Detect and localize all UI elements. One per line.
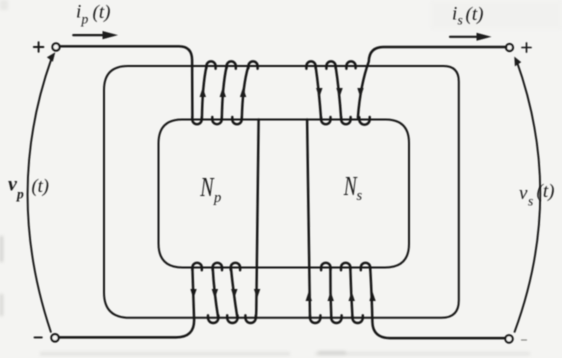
svg-text:N: N (199, 173, 214, 203)
arrow (up) on window wire of secondary (306, 292, 312, 302)
plus sign at primary + terminal (34, 42, 44, 52)
svg-text:(t): (t) (93, 2, 111, 23)
svg-text:p: p (81, 12, 89, 27)
current arrow i_s (450, 36, 477, 38)
secondary top coil: lower humps below core inner edge (321, 117, 370, 125)
svg-text:s: s (458, 13, 463, 28)
terminal -secondary (bottom right) (505, 335, 512, 342)
secondary bottom coil: current direction arrows (up) (328, 292, 376, 302)
voltage arc v_s with arrow toward + terminal (515, 60, 541, 332)
svg-text:p: p (213, 190, 221, 206)
svg-text:s: s (528, 194, 533, 209)
primary top coil: front wire strokes (202, 66, 249, 119)
terminal +secondary (top right) (506, 44, 513, 51)
primary bottom coil: upper humps above core inner bottom edge (192, 263, 240, 271)
svg-text:v: v (519, 183, 528, 204)
primary bottom coil: lower humps below core bottom edge (208, 315, 256, 323)
current arrow i_p (73, 34, 103, 36)
transformer core: outer outline (104, 66, 459, 318)
primary top coil: lower humps below core inner edge (192, 117, 241, 124)
wire: secondary bottom lead from coil to - terminal (370, 268, 505, 339)
voltage arc v_p with arrow toward + terminal (28, 59, 52, 332)
wire: primary bottom lead from coil to - terminal (59, 268, 195, 338)
minus sign at secondary - terminal (522, 339, 527, 341)
secondary bottom coil: upper humps above core inner bottom edge (321, 263, 370, 271)
svg-text:s: s (357, 188, 363, 204)
primary top coil: upper humps over core top edge (206, 61, 257, 68)
wire: primary winding pass through window (left vertical) (256, 120, 259, 318)
transformer core: inner window outline (159, 120, 410, 268)
plus sign at secondary + terminal (522, 43, 531, 52)
secondary top coil: current direction arrows (down) (316, 88, 364, 98)
svg-text:(t): (t) (466, 4, 484, 25)
secondary bottom coil: lower humps below core bottom edge (310, 315, 363, 323)
minus sign at primary - terminal (35, 336, 42, 338)
primary top coil: current direction arrows (up) (200, 88, 247, 98)
svg-text:(t): (t) (537, 181, 555, 202)
svg-text:p: p (16, 187, 24, 202)
primary bottom coil: current direction arrows (down) (190, 289, 237, 299)
secondary top coil: upper humps over core top edge (306, 61, 355, 68)
wire: primary top lead from + terminal into top-left coil (60, 46, 193, 117)
terminal -primary (bottom left) (51, 334, 58, 341)
wire: secondary winding pass through window (right vertical) (307, 120, 310, 318)
secondary top coil: front wire strokes (316, 66, 342, 119)
svg-text:i: i (452, 4, 457, 25)
wire: secondary top lead from + terminal into top-right coil (358, 47, 506, 118)
arrow (down) on window wire of primary (254, 289, 260, 299)
primary bottom coil: front wire strokes (213, 268, 238, 318)
svg-text:(t): (t) (32, 177, 49, 197)
terminal +primary (top left) (52, 43, 59, 50)
secondary bottom coil: front wire strokes (330, 268, 352, 318)
svg-text:i: i (76, 2, 81, 23)
